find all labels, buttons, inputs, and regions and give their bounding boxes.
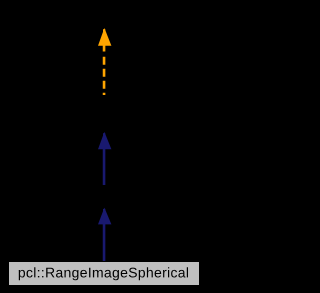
wire: midnightblue inheritance edge (middle) (103, 149, 106, 186)
arrowhead (orange) (98, 28, 111, 46)
wire: midnightblue inheritance edge (bottom) (103, 224, 106, 262)
arrowhead (blue, bottom) (98, 208, 111, 225)
node pcl::RangeImageSpherical (9, 262, 200, 286)
wire: orange dashed template-relation edge (103, 46, 106, 96)
arrowhead (blue, middle) (98, 132, 111, 149)
